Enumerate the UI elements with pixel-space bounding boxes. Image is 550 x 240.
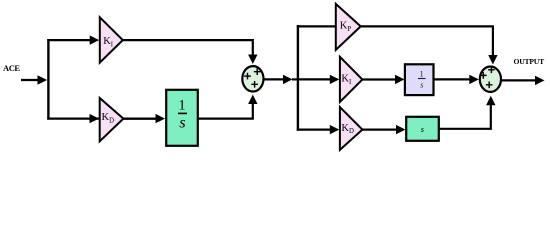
- svg-text:D: D: [109, 118, 114, 125]
- wire sum1 output to right branch node: [264, 78, 287, 80]
- integrator block 1/s (left): [166, 90, 198, 146]
- summing junction S2: [480, 67, 501, 92]
- wire top-right branch to KP: [297, 25, 337, 27]
- gain K1 triangle: [100, 17, 123, 62]
- wire bottom-left branch arrow into KD: [90, 114, 100, 123]
- svg-text:s: s: [421, 125, 424, 134]
- svg-text:1: 1: [420, 70, 424, 79]
- plus sign bottom (S2): [486, 82, 493, 89]
- wire 1/s output into sum2 left: [433, 78, 471, 80]
- wire left branch vertical: [47, 39, 49, 120]
- plus sign left (S1): [244, 73, 251, 80]
- gain KD triangle (left): [100, 98, 124, 141]
- svg-text:1: 1: [178, 97, 185, 113]
- integrator block 1/s (right): [405, 64, 434, 95]
- wire right branch vertical: [297, 25, 299, 131]
- wire bottom-right branch to KD: [297, 129, 331, 131]
- wire s block output to corner then up into sum2: [439, 103, 491, 129]
- gain KP triangle: [336, 4, 361, 50]
- summing junction S1: [242, 66, 263, 91]
- gain KD triangle (right): [340, 107, 363, 150]
- plus sign left (S2): [480, 72, 487, 79]
- wire KD(left) to integrator: [123, 117, 157, 119]
- svg-text:P: P: [347, 26, 351, 33]
- wire mid-right branch to KI: [297, 78, 331, 80]
- derivative block s: [406, 117, 439, 141]
- svg-text:ACE: ACE: [3, 63, 20, 73]
- wire integrator output to corner then up into sum1: [198, 102, 253, 119]
- wire KI to 1/s block: [362, 78, 397, 80]
- wire input arrow into branch node: [21, 79, 40, 81]
- wire K1 output to corner then down into sum1: [123, 40, 253, 57]
- svg-text:s: s: [420, 81, 423, 90]
- plus sign bottom (S1): [251, 81, 258, 88]
- wire top-left branch to K1: [47, 39, 91, 41]
- wire KD to s block: [362, 129, 398, 131]
- svg-text:OUTPUT: OUTPUT: [514, 57, 545, 66]
- svg-text:s: s: [179, 115, 185, 132]
- gain KI triangle: [340, 57, 363, 102]
- wire KP output to corner then down into sum2: [361, 26, 493, 57]
- wire output arrow: [501, 79, 536, 81]
- plus sign top (S2): [488, 67, 495, 74]
- svg-text:D: D: [349, 128, 354, 135]
- plus sign top (S1): [254, 68, 261, 75]
- wire bottom-left branch to integrator: [47, 117, 158, 119]
